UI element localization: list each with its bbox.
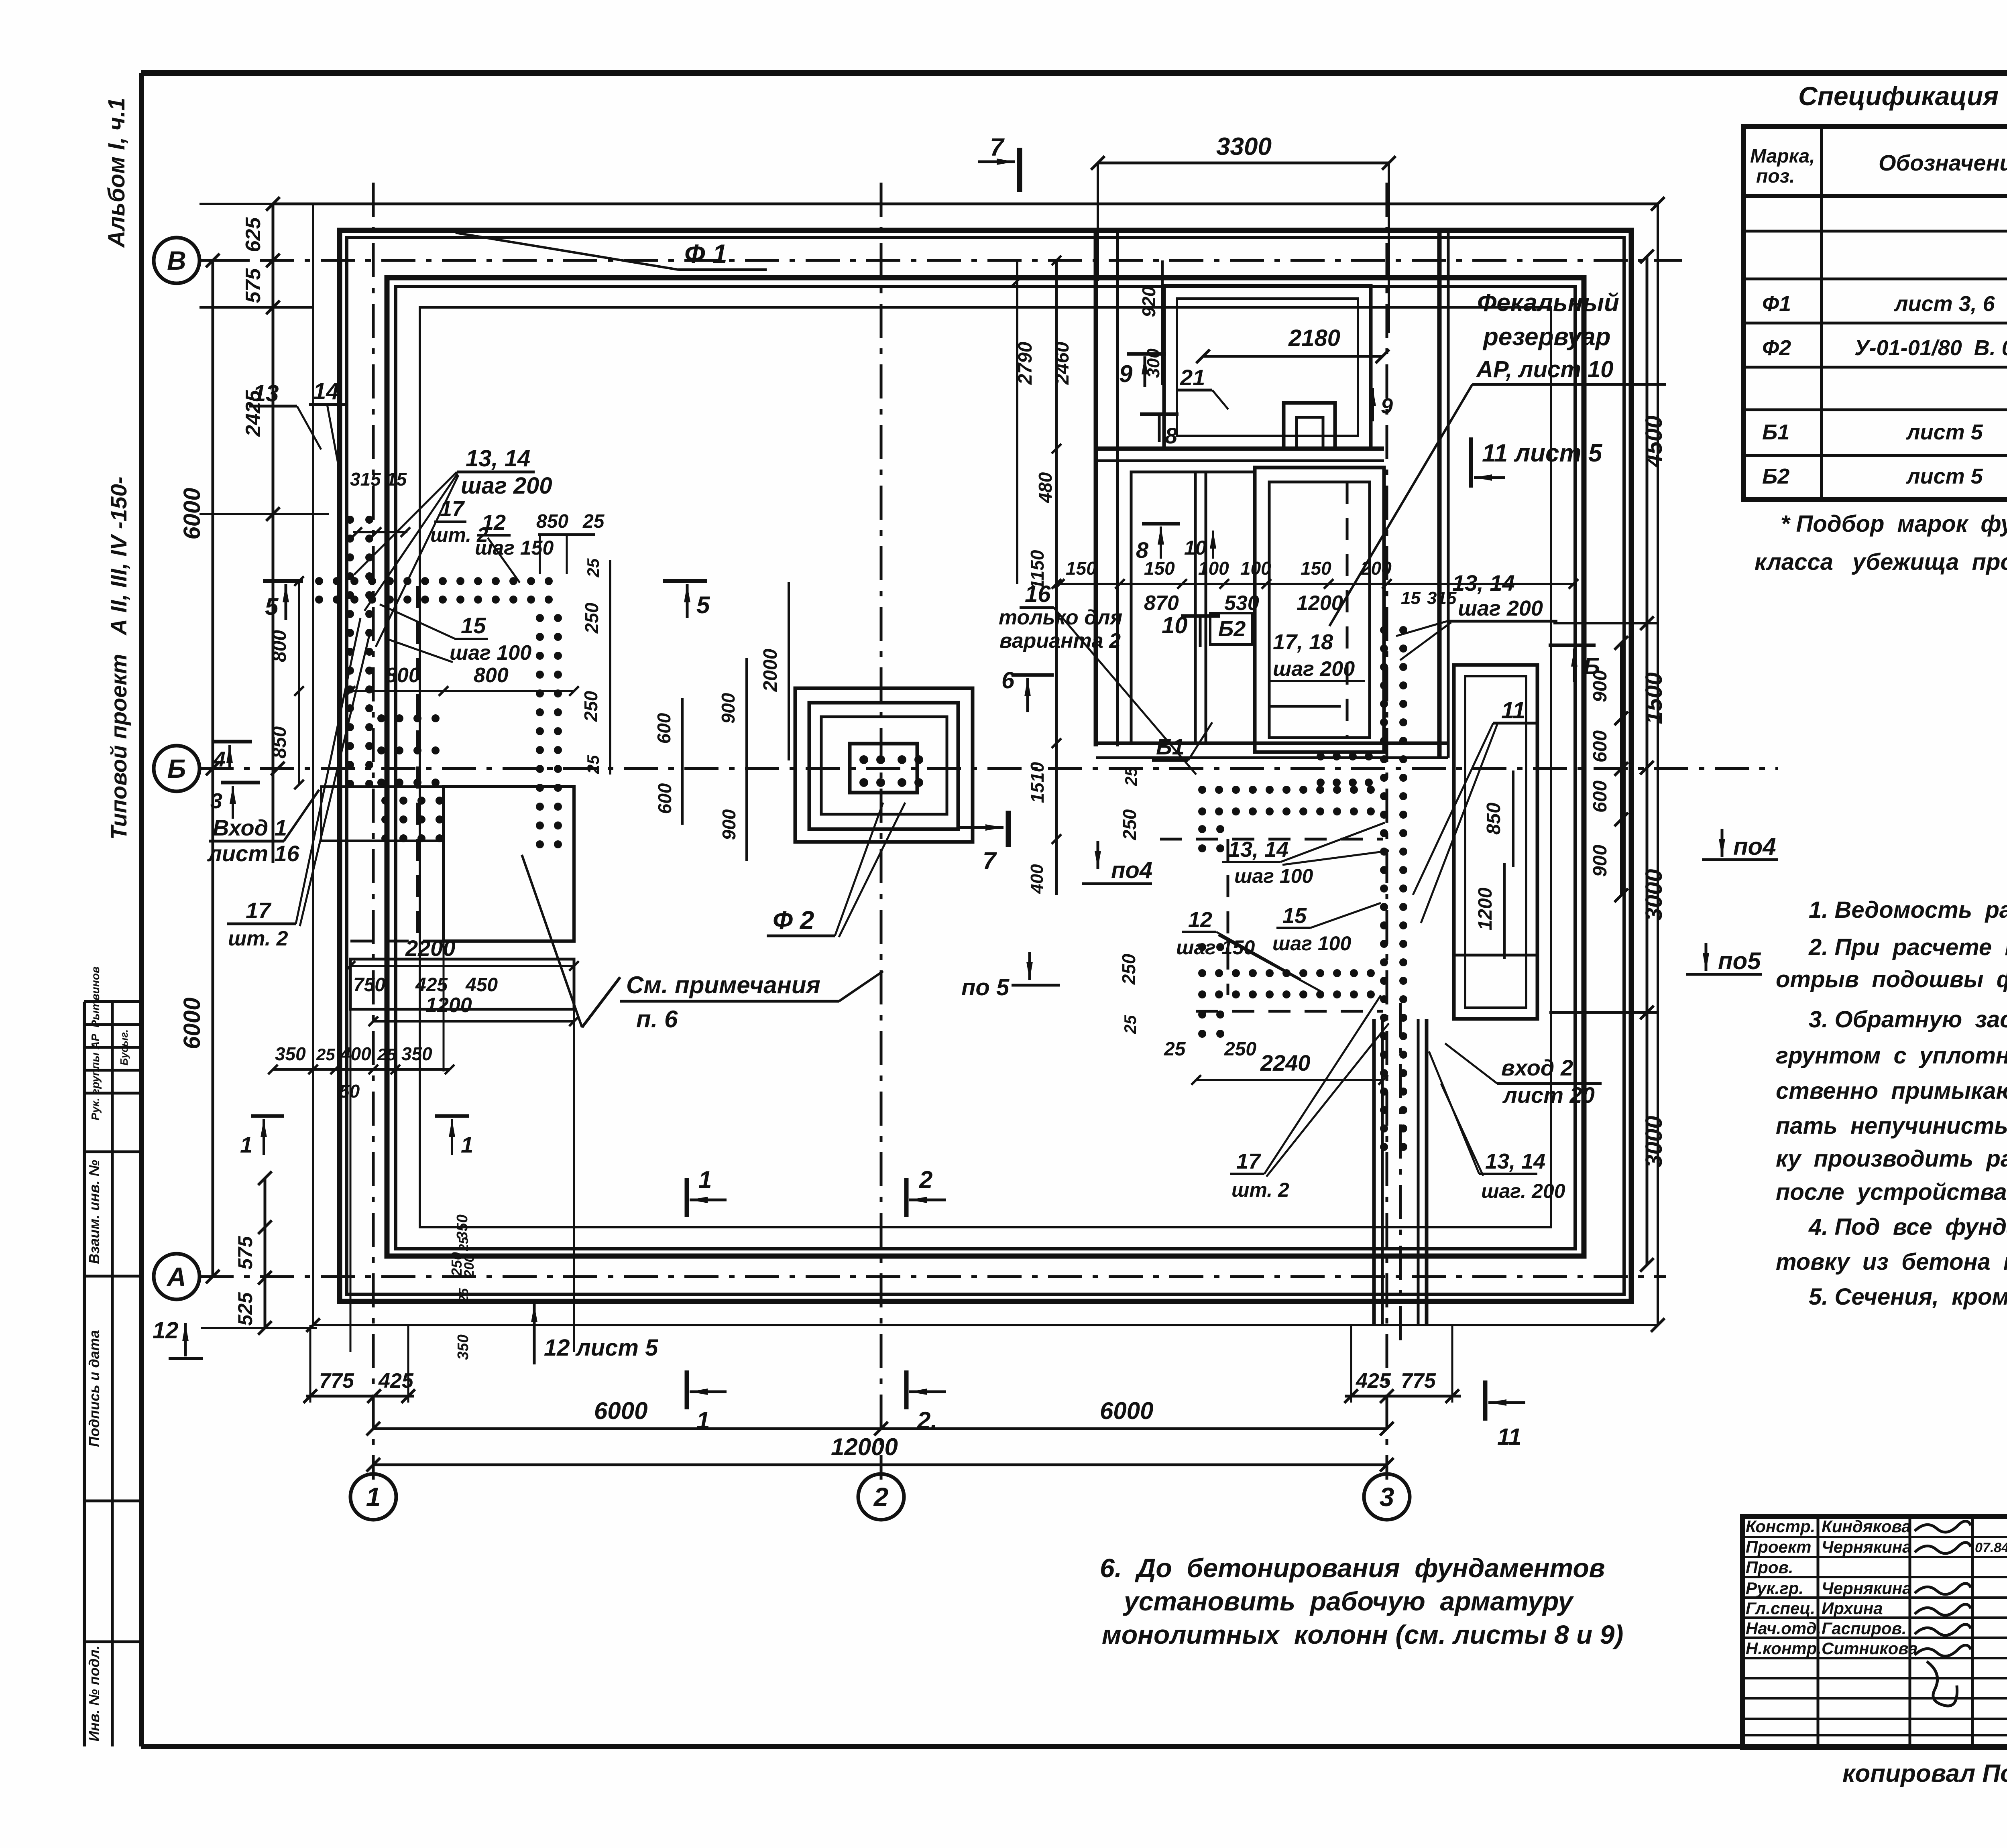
svg-text:480: 480 xyxy=(1035,472,1056,503)
svg-text:150: 150 xyxy=(1066,558,1097,579)
svg-text:Чернякина: Чернякина xyxy=(1822,1579,1912,1598)
svg-text:Н.контр.: Н.контр. xyxy=(1746,1639,1822,1658)
flags 1 pair upper-bottom xyxy=(251,1114,284,1118)
section flag 7 top xyxy=(978,161,1015,163)
dashed zone boundaries left xyxy=(416,586,419,943)
svg-text:13: 13 xyxy=(253,380,279,407)
svg-text:17: 17 xyxy=(440,497,465,521)
svg-text:Фекальный: Фекальный xyxy=(1477,289,1619,317)
svg-text:лист 16: лист 16 xyxy=(207,841,300,866)
svg-text:750: 750 xyxy=(353,974,385,996)
svg-text:У-01-01/80 В. 0-1: У-01-01/80 В. 0-1 xyxy=(1854,336,2007,360)
left lower dim 575/525 xyxy=(264,1178,267,1328)
dim 6000 span 2-3 xyxy=(881,1427,1387,1430)
svg-text:Гл.спец.: Гл.спец. xyxy=(1746,1599,1815,1618)
svg-text:530: 530 xyxy=(1224,592,1259,615)
svg-text:отрыв подошвы фундамента 25: отрыв подошвы фундамента 25% xyxy=(1776,966,2007,992)
svg-text:товку из бетона марки М 10: товку из бетона марки М 100. xyxy=(1776,1249,2007,1275)
svg-text:по4: по4 xyxy=(1111,857,1152,883)
left rot dims 800 850 xyxy=(298,581,300,785)
bottom slab edge slashes xyxy=(306,1318,320,1332)
entrance 2 ramp walls xyxy=(1454,665,1537,1019)
svg-text:13, 14: 13, 14 xyxy=(1228,838,1288,862)
svg-text:лист 3, 6: лист 3, 6 xyxy=(1893,292,1995,316)
label Б2 boxed xyxy=(1210,613,1252,644)
svg-text:25: 25 xyxy=(377,1045,396,1064)
marker по5 right xyxy=(1705,943,1708,971)
svg-text:12: 12 xyxy=(1188,908,1212,932)
svg-text:3000: 3000 xyxy=(1641,869,1667,921)
svg-text:21: 21 xyxy=(1180,365,1205,390)
svg-text:1200: 1200 xyxy=(1475,887,1496,930)
svg-text:12 лист 5: 12 лист 5 xyxy=(544,1335,658,1361)
svg-text:3: 3 xyxy=(210,789,222,813)
axis circle А xyxy=(154,1254,199,1299)
rebar dots block A xyxy=(377,714,385,722)
svg-text:6000: 6000 xyxy=(179,997,205,1049)
svg-text:2200: 2200 xyxy=(405,935,456,961)
building outer slab edge xyxy=(313,204,1658,1325)
svg-text:6000: 6000 xyxy=(594,1397,647,1424)
footing Ф2 nested squares xyxy=(795,688,973,842)
svg-text:25: 25 xyxy=(316,1045,335,1064)
svg-text:25: 25 xyxy=(456,1236,471,1252)
reservoir outer xyxy=(1255,468,1384,752)
top slab dimension line xyxy=(273,203,1658,205)
axis circle 2 xyxy=(858,1474,904,1520)
svg-text:Ф 2: Ф 2 xyxy=(773,906,814,935)
flag 11 лист 5 xyxy=(1469,437,1473,488)
interior wall vertical (x~2730) xyxy=(1094,230,1098,746)
svg-text:775: 775 xyxy=(319,1369,354,1393)
upper room rectangle xyxy=(1164,286,1371,449)
dim 2240 xyxy=(1196,1079,1383,1081)
spec table grid xyxy=(1744,126,2007,500)
marker по4 middle xyxy=(1097,841,1099,869)
svg-text:1500: 1500 xyxy=(1641,672,1667,724)
reservoir inner xyxy=(1269,482,1370,738)
svg-text:250: 250 xyxy=(581,602,602,634)
dim 6000 span 1-2 xyxy=(373,1427,881,1430)
svg-text:2: 2 xyxy=(873,1482,889,1512)
svg-text:17: 17 xyxy=(246,898,272,923)
svg-text:Типовой проект А II, III, IV: Типовой проект А II, III, IV -150- xyxy=(106,477,131,840)
axis circle 3 xyxy=(1364,1474,1410,1520)
svg-text:шаг 200: шаг 200 xyxy=(1273,657,1355,681)
svg-text:900: 900 xyxy=(719,809,739,840)
svg-text:Проект: Проект xyxy=(1746,1537,1812,1556)
svg-text:200: 200 xyxy=(1360,558,1392,579)
svg-text:25: 25 xyxy=(1121,1015,1140,1034)
svg-text:шт. 2: шт. 2 xyxy=(228,927,288,950)
svg-text:100: 100 xyxy=(1240,558,1271,579)
dim 2200 xyxy=(350,965,574,967)
svg-text:5. Сечения, кроме оговоренны: 5. Сечения, кроме оговоренных, смотрите … xyxy=(1809,1284,2007,1310)
rebar dots upper horizontal band xyxy=(1198,786,1206,794)
svg-text:6000: 6000 xyxy=(179,488,205,539)
svg-text:2: 2 xyxy=(919,1166,932,1193)
svg-text:625: 625 xyxy=(242,217,265,252)
svg-text:Б2: Б2 xyxy=(1762,464,1789,488)
wall inner face double line xyxy=(387,278,1584,1256)
svg-text:525: 525 xyxy=(234,1292,256,1326)
svg-text:7: 7 xyxy=(990,134,1005,161)
svg-text:3000: 3000 xyxy=(1641,1116,1667,1167)
svg-text:8: 8 xyxy=(1165,423,1178,448)
svg-text:п. 6: п. 6 xyxy=(636,1006,678,1033)
svg-text:пать непучинистым грунтом т: пать непучинистым грунтом толщиной не ме… xyxy=(1776,1113,2007,1139)
svg-text:шаг 200: шаг 200 xyxy=(461,473,552,499)
dim 1200 xyxy=(373,1020,574,1023)
dim 3300 xyxy=(1098,162,1389,165)
svg-text:12: 12 xyxy=(482,510,506,535)
svg-text:2180: 2180 xyxy=(1288,325,1340,351)
svg-text:лист 20: лист 20 xyxy=(1502,1082,1595,1108)
svg-text:2240: 2240 xyxy=(1260,1050,1311,1075)
svg-text:А: А xyxy=(166,1262,186,1291)
svg-text:Пров.: Пров. xyxy=(1746,1558,1793,1577)
title block frame xyxy=(1742,1517,2007,1748)
label 12 лист 5 xyxy=(533,1304,536,1364)
flag 8 lower xyxy=(1142,522,1180,526)
svg-text:4. Под все фундаменты выпол: 4. Под все фундаменты выполнить бетонную… xyxy=(1808,1214,2007,1240)
svg-text:800: 800 xyxy=(474,664,509,687)
axis 3 vertical xyxy=(1386,183,1388,1480)
svg-text:250: 250 xyxy=(1118,953,1139,985)
svg-text:100: 100 xyxy=(1198,558,1229,579)
svg-text:16: 16 xyxy=(1025,581,1051,607)
svg-text:15: 15 xyxy=(461,613,486,638)
svg-text:870: 870 xyxy=(1144,592,1179,615)
svg-text:15: 15 xyxy=(386,469,407,490)
svg-text:по5: по5 xyxy=(1718,947,1761,974)
svg-text:800: 800 xyxy=(385,664,420,687)
svg-text:2790: 2790 xyxy=(1015,342,1036,385)
svg-text:25: 25 xyxy=(582,511,605,532)
svg-text:200: 200 xyxy=(462,1255,477,1278)
left margin stamp tables xyxy=(83,1002,86,1746)
svg-text:6000: 6000 xyxy=(1100,1397,1153,1424)
svg-text:350: 350 xyxy=(454,1214,471,1240)
title block left grid xyxy=(1742,1536,2007,1538)
svg-text:800: 800 xyxy=(269,630,290,662)
svg-text:поз.: поз. xyxy=(1756,166,1795,187)
svg-text:150: 150 xyxy=(1301,558,1331,579)
svg-text:850: 850 xyxy=(1483,803,1504,835)
svg-text:1: 1 xyxy=(698,1166,712,1193)
flag 11 bottom right xyxy=(1483,1380,1488,1421)
svg-text:по 5: по 5 xyxy=(961,974,1010,1000)
svg-text:450: 450 xyxy=(465,974,498,996)
left dim 625/575/2425 xyxy=(272,204,275,863)
svg-text:12000: 12000 xyxy=(831,1433,898,1460)
svg-text:Инв. № подл.: Инв. № подл. xyxy=(86,1645,102,1741)
svg-text:Гаспиров.: Гаспиров. xyxy=(1822,1619,1907,1638)
svg-text:25: 25 xyxy=(1122,767,1140,786)
right cluster rot labels xyxy=(609,560,611,775)
svg-text:лист 5: лист 5 xyxy=(1905,420,1983,444)
dims 350 25 400 25 350 / 50 xyxy=(273,1068,450,1071)
dim 12000 xyxy=(373,1464,1387,1466)
svg-text:12: 12 xyxy=(153,1317,179,1344)
rebar dots lower horizontal band xyxy=(1198,969,1206,977)
axis 2 vertical xyxy=(880,183,883,1480)
svg-text:шаг 100: шаг 100 xyxy=(450,641,531,665)
flag 5 mid xyxy=(663,579,707,583)
svg-text:Ирхина: Ирхина xyxy=(1822,1599,1883,1618)
svg-text:Ф1: Ф1 xyxy=(1762,292,1791,316)
dims 800 800 xyxy=(350,690,574,692)
svg-text:25: 25 xyxy=(584,755,603,774)
flag 9 small right xyxy=(1372,388,1374,421)
rebar dots left horizontal band xyxy=(315,577,323,585)
svg-text:400: 400 xyxy=(1027,864,1047,894)
interior block right wall xyxy=(1437,230,1442,758)
svg-text:См. примечания: См. примечания xyxy=(626,972,820,998)
axis line B (top horizontal) xyxy=(199,259,1682,262)
dims row 150 150 100 100 150 200 xyxy=(1060,583,1573,585)
flag 8 upper xyxy=(1140,413,1179,416)
foundation ribbon inner edge xyxy=(420,307,1551,1227)
svg-text:9: 9 xyxy=(1119,360,1133,387)
bottom small dims right 425/775 xyxy=(1345,1395,1461,1398)
svg-text:Вход 1: Вход 1 xyxy=(213,815,287,840)
svg-text:8: 8 xyxy=(1136,537,1149,563)
svg-text:Ф2: Ф2 xyxy=(1762,336,1791,360)
svg-text:600: 600 xyxy=(1590,730,1611,762)
svg-text:350: 350 xyxy=(401,1043,432,1064)
svg-text:шаг 150: шаг 150 xyxy=(475,537,554,559)
svg-text:150: 150 xyxy=(1144,558,1175,579)
svg-text:Ситникова: Ситникова xyxy=(1822,1639,1917,1658)
svg-text:17, 18: 17, 18 xyxy=(1273,630,1333,654)
signatures squiggles xyxy=(1915,1521,1971,1532)
svg-text:920: 920 xyxy=(1138,286,1159,317)
svg-text:Подпись и дата: Подпись и дата xyxy=(86,1330,102,1447)
small shaft square xyxy=(1284,403,1335,449)
svg-text:600: 600 xyxy=(653,713,674,744)
svg-text:900: 900 xyxy=(1590,845,1611,877)
svg-text:850: 850 xyxy=(536,511,568,532)
dim line 2790 vertical xyxy=(1016,260,1018,584)
svg-text:шаг 100: шаг 100 xyxy=(1234,865,1313,887)
axis line А (bottom horizontal) xyxy=(199,1275,1666,1278)
svg-text:АР, лист 10: АР, лист 10 xyxy=(1476,356,1614,382)
svg-text:установить рабочую арматуру: установить рабочую арматуру xyxy=(1123,1586,1574,1616)
svg-text:9: 9 xyxy=(1381,394,1393,418)
svg-text:25: 25 xyxy=(456,1288,471,1303)
rebar dots upper small block xyxy=(1317,752,1325,760)
svg-text:50: 50 xyxy=(339,1081,360,1102)
svg-text:850: 850 xyxy=(269,726,290,758)
svg-text:только для: только для xyxy=(999,606,1122,629)
room Б1/Б2 xyxy=(1131,472,1255,743)
bottom small dims left 775/425 xyxy=(306,1395,414,1398)
svg-text:Киндякова: Киндякова xyxy=(1822,1517,1911,1536)
svg-text:1: 1 xyxy=(696,1407,710,1434)
svg-text:Альбом I, ч.1: Альбом I, ч.1 xyxy=(104,98,130,248)
svg-text:резервуар: резервуар xyxy=(1482,323,1610,351)
svg-text:775: 775 xyxy=(1401,1369,1436,1393)
svg-text:11: 11 xyxy=(1497,1424,1521,1450)
svg-text:монолитных колонн (см. листы: монолитных колонн (см. листы 8 и 9) xyxy=(1102,1620,1623,1649)
svg-text:1: 1 xyxy=(366,1482,381,1512)
rebar dots central vertical band xyxy=(1380,626,1388,634)
svg-text:900: 900 xyxy=(718,693,739,724)
dashed boundary right zone xyxy=(1227,839,1229,995)
svg-text:11 лист 5: 11 лист 5 xyxy=(1482,439,1603,467)
svg-text:13, 14: 13, 14 xyxy=(466,445,530,472)
svg-text:7: 7 xyxy=(983,847,997,874)
reservoir dashed edge xyxy=(1346,482,1349,738)
svg-text:Б1: Б1 xyxy=(1762,420,1789,444)
svg-text:425: 425 xyxy=(1356,1369,1391,1393)
svg-text:600: 600 xyxy=(1590,781,1611,813)
svg-text:Б2: Б2 xyxy=(1218,617,1246,641)
dim 2180 xyxy=(1203,355,1382,358)
rebar dots left columns right zone xyxy=(1198,825,1206,833)
svg-text:400: 400 xyxy=(340,1043,371,1064)
wall outer face double line xyxy=(340,230,1631,1301)
page frame xyxy=(141,70,2007,76)
svg-text:2. При расчете на особое с: 2. При расчете на особое сочетание нагру… xyxy=(1808,934,2007,960)
flag 7 mid xyxy=(957,826,1003,829)
svg-text:шаг 100: шаг 100 xyxy=(1272,932,1351,955)
svg-text:2000: 2000 xyxy=(760,649,781,692)
svg-text:Б: Б xyxy=(1584,653,1600,679)
svg-text:грунтом с уплотнением, при: грунтом с уплотнением, при этом слой гру… xyxy=(1776,1043,2007,1069)
axis circle Б xyxy=(154,746,199,791)
svg-text:3. Обратную засыпку котлован: 3. Обратную засыпку котлована производит… xyxy=(1809,1006,2007,1033)
rot labels left of block xyxy=(1055,260,1058,895)
svg-text:Б: Б xyxy=(167,754,186,783)
svg-text:ственно примыкающий к конст: ственно примыкающий к конструкциям убежи… xyxy=(1776,1078,2007,1104)
svg-text:10: 10 xyxy=(1184,537,1207,559)
svg-text:Б1: Б1 xyxy=(1156,734,1185,759)
svg-text:после устройства полов.: после устройства полов. xyxy=(1776,1179,2007,1205)
axis circle 1 xyxy=(350,1474,396,1520)
svg-text:250: 250 xyxy=(1224,1039,1256,1060)
svg-text:2.: 2. xyxy=(917,1407,937,1434)
svg-text:Рук. группы АР Рытвинов: Рук. группы АР Рытвинов xyxy=(89,966,102,1120)
svg-text:600: 600 xyxy=(654,783,675,814)
interior wall horizontal (y~1120) xyxy=(1096,447,1384,451)
svg-text:250: 250 xyxy=(580,691,601,722)
svg-text:425: 425 xyxy=(415,974,448,996)
svg-text:15: 15 xyxy=(1401,588,1421,608)
svg-text:варианта 2: варианта 2 xyxy=(999,629,1121,653)
svg-text:Рук.гр.: Рук.гр. xyxy=(1746,1579,1803,1598)
svg-text:4500: 4500 xyxy=(1641,415,1667,468)
svg-text:575: 575 xyxy=(242,268,265,303)
svg-text:шаг. 200: шаг. 200 xyxy=(1481,1180,1565,1202)
svg-text:14: 14 xyxy=(313,378,339,405)
svg-text:25: 25 xyxy=(1164,1039,1186,1060)
left dim 6000/6000 xyxy=(212,260,214,1277)
svg-text:1200: 1200 xyxy=(1297,592,1343,615)
axis line Б (middle horizontal) xyxy=(199,767,1778,770)
flag Б right xyxy=(1549,644,1596,647)
footing Ф2 column core xyxy=(850,744,917,793)
svg-text:Ф 1: Ф 1 xyxy=(684,239,727,268)
right inner dim 900/600/600/900 xyxy=(1620,643,1622,895)
svg-text:15: 15 xyxy=(1282,904,1307,928)
rebar dots left vertical band xyxy=(346,516,354,524)
flag 3 left xyxy=(221,781,260,785)
svg-text:13, 14: 13, 14 xyxy=(1485,1149,1545,1173)
svg-text:Обозначение: Обозначение xyxy=(1879,150,2007,175)
svg-text:6. До бетонирования фундаме: 6. До бетонирования фундаментов xyxy=(1100,1553,1605,1583)
vestibule rectangle xyxy=(444,787,574,941)
right dim line 4500/1500/3000/3000 xyxy=(1646,256,1649,1265)
svg-text:350: 350 xyxy=(455,1334,472,1360)
svg-text:25: 25 xyxy=(584,558,603,577)
svg-text:250: 250 xyxy=(1119,809,1140,840)
svg-text:350: 350 xyxy=(275,1043,306,1064)
svg-text:17: 17 xyxy=(1236,1149,1262,1173)
svg-text:шаг 200: шаг 200 xyxy=(1458,596,1543,620)
svg-text:1. Ведомость расхода стали: 1. Ведомость расхода стали смотрите лист… xyxy=(1809,897,2007,923)
svg-text:Взаим. инв. №: Взаим. инв. № xyxy=(86,1160,102,1264)
svg-text:5: 5 xyxy=(696,592,710,618)
rebar dots right column of left zone xyxy=(536,614,544,622)
svg-text:по4: по4 xyxy=(1733,833,1776,860)
section flags 1,2 lower xyxy=(685,1370,689,1409)
bottom wall of block xyxy=(1096,742,1448,745)
svg-text:6: 6 xyxy=(1001,667,1015,693)
svg-text:315: 315 xyxy=(1427,588,1457,608)
svg-text:1: 1 xyxy=(461,1132,473,1157)
svg-text:Марка,: Марка, xyxy=(1750,146,1815,167)
section flags 1,2 mid xyxy=(685,1178,689,1217)
flag 4 left xyxy=(214,740,252,744)
wall stub left xyxy=(321,787,444,841)
svg-text:5: 5 xyxy=(265,593,279,620)
svg-text:* Подбор марок фундамента Ф2: * Подбор марок фундамента Ф2 для соответ… xyxy=(1781,511,2007,537)
marker по4 right xyxy=(1721,829,1724,857)
svg-text:Бусыг.: Бусыг. xyxy=(118,1029,130,1065)
svg-text:2460: 2460 xyxy=(1052,342,1073,385)
svg-text:4: 4 xyxy=(213,747,226,771)
rebar dots block B xyxy=(381,797,389,805)
svg-text:В: В xyxy=(167,246,186,275)
svg-text:1510: 1510 xyxy=(1027,762,1048,803)
flag 5 left xyxy=(263,579,303,583)
svg-text:Спецификация к схеме располо: Спецификация к схеме расположения фундам… xyxy=(1798,81,2007,111)
extension lines bottom interior xyxy=(350,1009,352,1352)
svg-text:315: 315 xyxy=(350,469,381,490)
svg-text:1200: 1200 xyxy=(425,994,472,1017)
svg-text:1: 1 xyxy=(240,1132,252,1157)
axis 1 vertical xyxy=(372,183,375,1480)
svg-text:Нач.отд.: Нач.отд. xyxy=(1746,1619,1821,1638)
svg-text:лист 5: лист 5 xyxy=(1905,464,1983,488)
svg-text:3300: 3300 xyxy=(1216,133,1272,161)
svg-text:класса убежища производить: класса убежища производить согласно табл… xyxy=(1755,549,2007,575)
svg-text:575: 575 xyxy=(234,1236,256,1270)
svg-text:3: 3 xyxy=(1380,1482,1394,1512)
svg-text:ку производить равномерно п: ку производить равномерно по всему перим… xyxy=(1776,1146,2007,1172)
svg-text:07.84: 07.84 xyxy=(1975,1540,2007,1555)
svg-text:Констр.: Констр. xyxy=(1746,1517,1815,1536)
entrance 2 shaft down through wall xyxy=(1372,1019,1376,1325)
svg-text:копировал Пол: копировал Пол xyxy=(1842,1760,2007,1787)
svg-text:Чернякина: Чернякина xyxy=(1822,1537,1912,1556)
axis circle В xyxy=(154,238,199,283)
svg-text:шт. 2: шт. 2 xyxy=(1231,1179,1289,1201)
svg-text:вход 2: вход 2 xyxy=(1501,1055,1573,1080)
lower band rectangle xyxy=(350,959,574,1009)
